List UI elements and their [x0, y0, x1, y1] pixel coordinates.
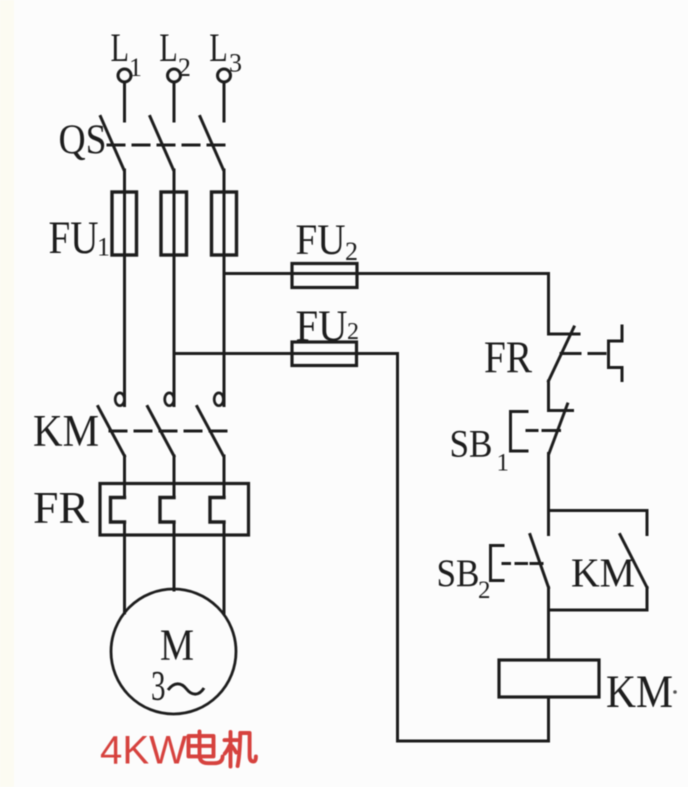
svg-text:1: 1: [129, 53, 142, 82]
svg-text:KM: KM: [571, 550, 635, 596]
svg-text:M: M: [160, 620, 194, 670]
svg-text:L: L: [159, 25, 178, 70]
svg-text:L: L: [209, 25, 228, 70]
svg-text:3: 3: [151, 664, 166, 710]
svg-text:FR: FR: [484, 332, 532, 383]
svg-text:2: 2: [345, 237, 358, 266]
svg-text:KM: KM: [33, 406, 99, 456]
svg-text:4KW: 4KW: [100, 729, 187, 773]
svg-text:2: 2: [178, 53, 191, 82]
svg-text:QS: QS: [59, 118, 107, 164]
svg-text:SB: SB: [450, 423, 493, 466]
svg-text:FU: FU: [296, 302, 348, 351]
svg-text:L: L: [111, 25, 130, 70]
svg-text:2: 2: [478, 577, 491, 604]
svg-text:1: 1: [97, 233, 110, 262]
svg-text:2: 2: [347, 319, 359, 345]
svg-text:SB: SB: [437, 552, 480, 595]
svg-text:1: 1: [497, 450, 510, 477]
svg-text:FR: FR: [33, 483, 89, 533]
svg-text:KM: KM: [606, 666, 673, 718]
svg-text:FU: FU: [49, 212, 99, 264]
svg-text:FU: FU: [296, 217, 346, 264]
svg-text:3: 3: [229, 49, 242, 78]
